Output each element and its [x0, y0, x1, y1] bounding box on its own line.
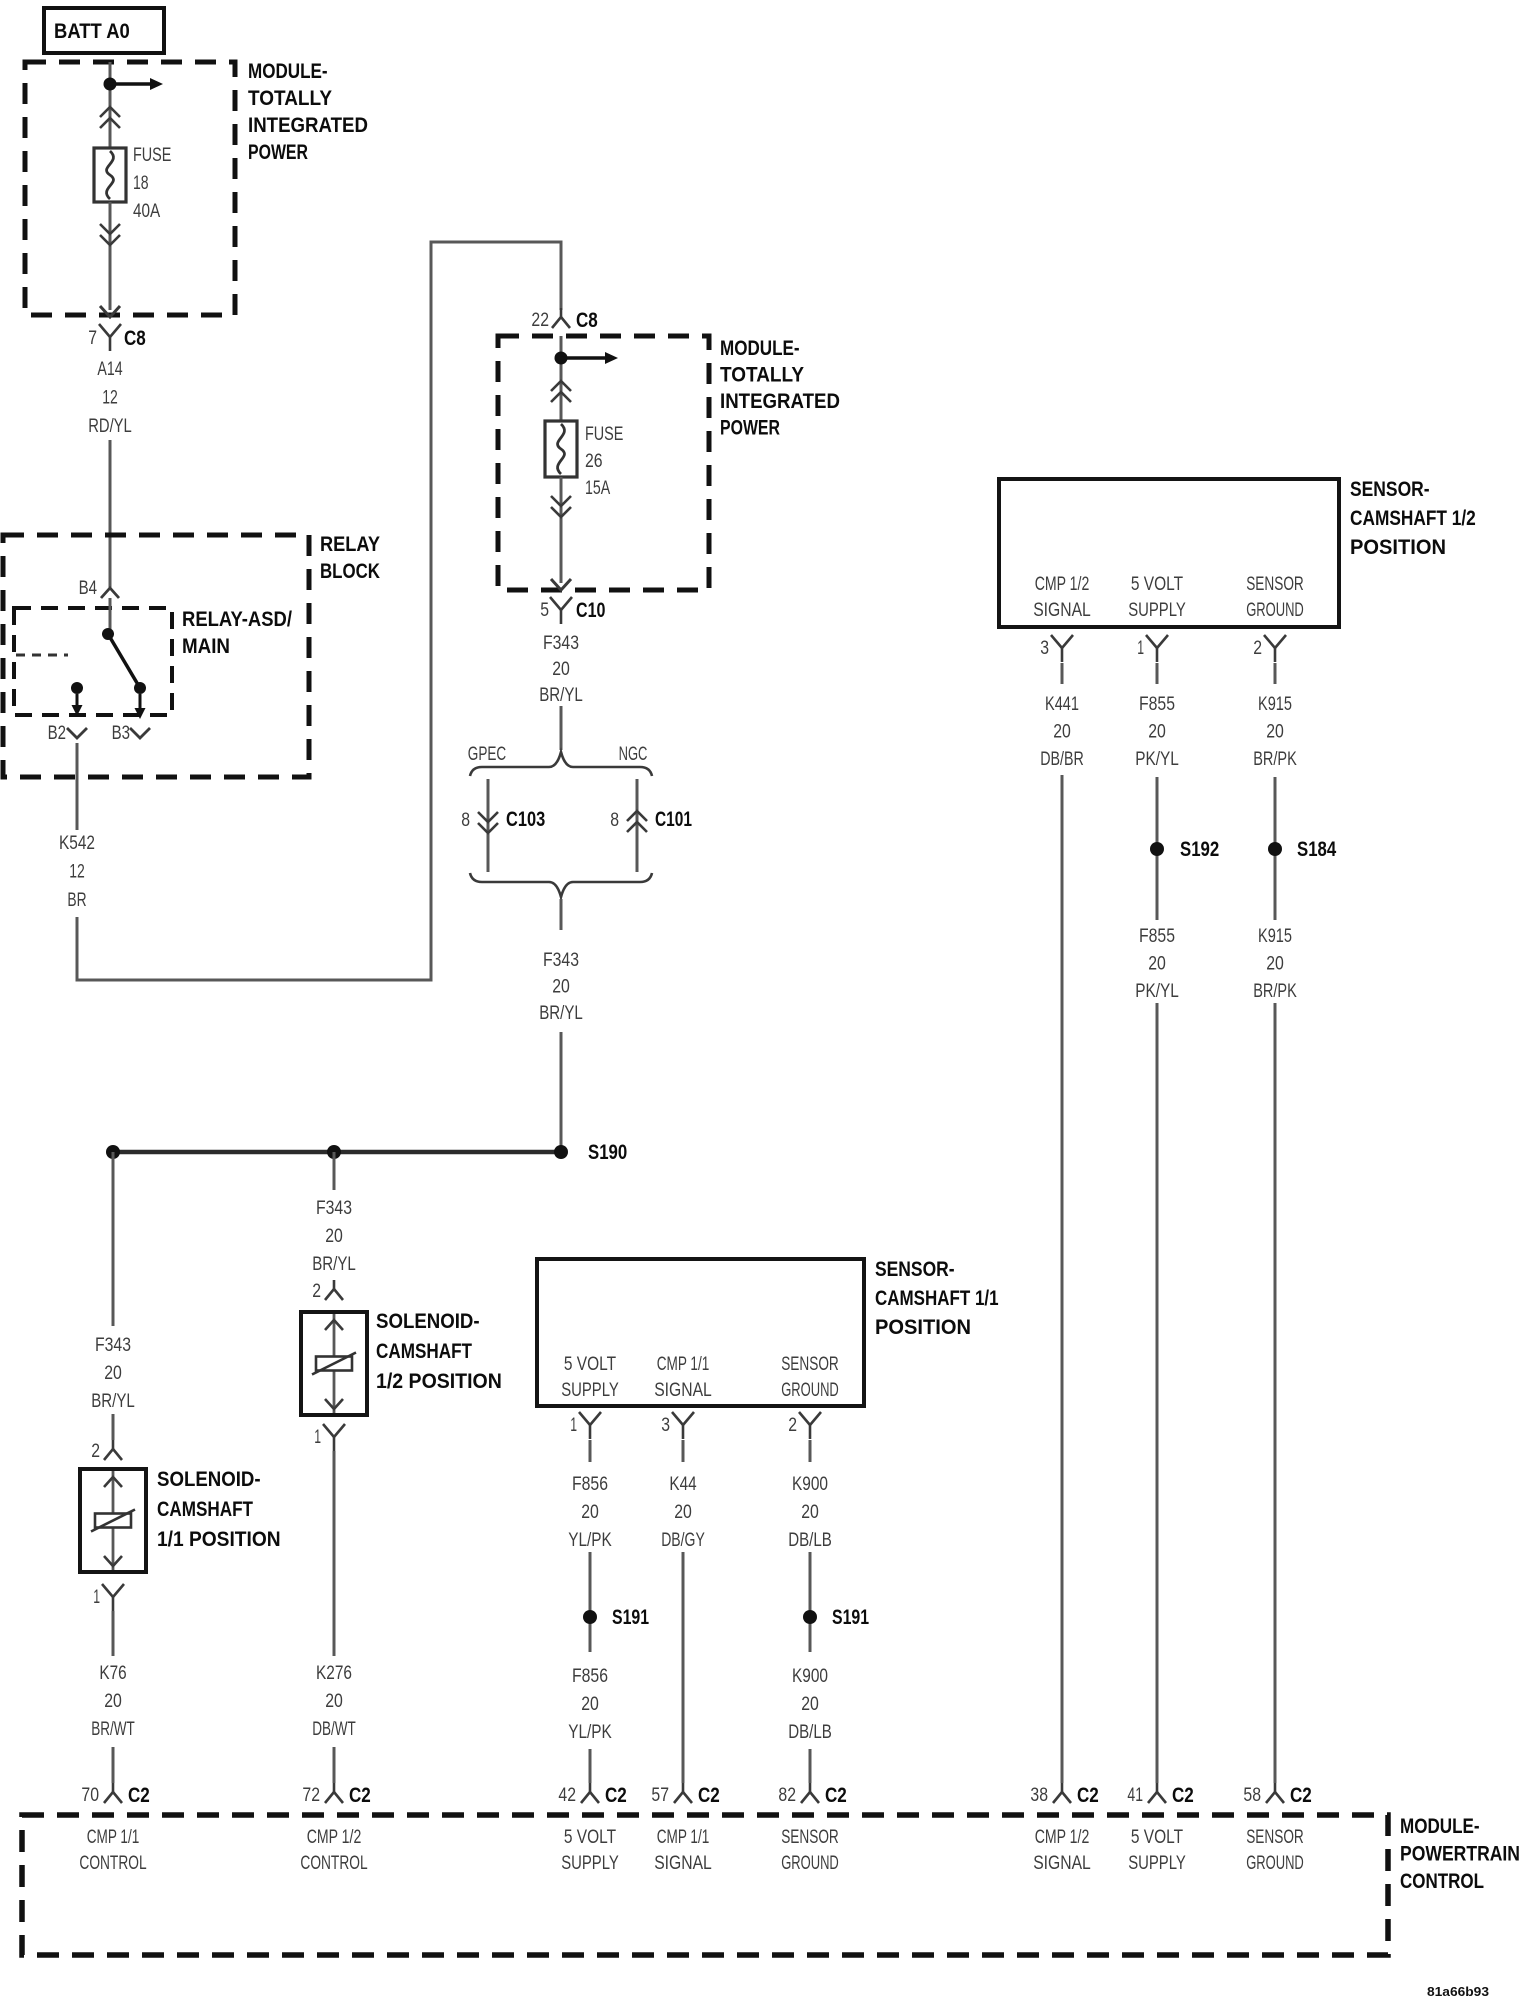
label RELAY BLOCK	[320, 533, 380, 583]
wire A14 to relay block	[109, 440, 112, 588]
svg-text:40A: 40A	[133, 201, 160, 222]
label SENSOR GROUND in box 2	[1246, 574, 1304, 621]
wire F856 labels upper	[568, 1474, 612, 1551]
pin B4 label	[79, 578, 98, 599]
label CMP 1/2 CONTROL	[300, 1827, 367, 1874]
svg-text:41: 41	[1127, 1785, 1143, 1806]
double chevron up 1	[100, 107, 120, 128]
svg-text:RD/YL: RD/YL	[88, 416, 132, 437]
wire into fuse 26	[560, 336, 563, 421]
terminal 1 sol 1-2	[323, 1424, 345, 1451]
pin 1 label sol 1-2	[314, 1427, 321, 1448]
pin 1 label sens 1-1	[570, 1415, 577, 1436]
svg-text:BATT A0: BATT A0	[54, 20, 130, 43]
pin 57 label	[651, 1785, 669, 1806]
svg-text:CAMSHAFT: CAMSHAFT	[157, 1498, 253, 1521]
wire K441 long	[1061, 775, 1064, 1783]
svg-text:42: 42	[558, 1785, 576, 1806]
pin 3 label sens 1-1	[661, 1415, 670, 1436]
svg-text:20: 20	[1148, 954, 1166, 975]
svg-text:SENSOR: SENSOR	[781, 1354, 839, 1375]
svg-text:1: 1	[93, 1587, 100, 1608]
svg-text:3: 3	[1040, 638, 1049, 659]
svg-text:S190: S190	[588, 1141, 627, 1164]
svg-text:C8: C8	[124, 327, 146, 350]
svg-text:F343: F343	[543, 633, 579, 654]
pin 72 label	[302, 1785, 320, 1806]
pin 7 label	[88, 328, 97, 349]
wire F343 labels lower	[539, 950, 583, 1024]
label C2 pin72	[349, 1784, 371, 1807]
svg-text:12: 12	[69, 862, 85, 883]
label S190	[588, 1141, 627, 1164]
svg-text:BR/YL: BR/YL	[91, 1391, 135, 1412]
pin 2 label sens 1-2	[1253, 638, 1262, 659]
pin 22 label	[531, 310, 549, 331]
svg-text:POSITION: POSITION	[875, 1316, 971, 1339]
terminal 3 sens 1-2	[1051, 635, 1073, 662]
wire K44 labels	[661, 1474, 705, 1551]
relay armature	[108, 634, 140, 688]
svg-text:RELAY-ASD/: RELAY-ASD/	[182, 608, 292, 631]
terminal 3 sens 1-1	[672, 1412, 694, 1439]
svg-text:F856: F856	[572, 1666, 608, 1687]
svg-text:GPEC: GPEC	[468, 744, 506, 765]
svg-text:K915: K915	[1258, 694, 1292, 715]
svg-text:20: 20	[552, 977, 570, 998]
wire branch solenoid 1-2 upper	[333, 1152, 336, 1190]
terminal 2 sens 1-2	[1264, 635, 1286, 662]
terminal 41 C2	[1148, 1783, 1166, 1803]
solenoid camshaft 1-2 position	[301, 1312, 367, 1415]
svg-text:K900: K900	[792, 1666, 828, 1687]
wire K900 through S191	[809, 1552, 812, 1652]
wire K76 to PCM	[112, 1747, 115, 1783]
wire F343 labels top	[539, 633, 583, 706]
svg-text:C101: C101	[655, 808, 692, 831]
svg-text:70: 70	[81, 1785, 99, 1806]
svg-text:TOTALLY: TOTALLY	[248, 87, 332, 110]
svg-text:22: 22	[531, 310, 549, 331]
label C10	[576, 599, 605, 622]
label MODULE-TOTALLY INTEGRATED POWER 2	[720, 337, 840, 440]
module RELAY BLOCK dashed box	[3, 535, 309, 777]
svg-text:26: 26	[585, 451, 603, 472]
svg-text:F855: F855	[1139, 926, 1175, 947]
label S184	[1297, 838, 1336, 861]
fuse 18 40A	[94, 148, 126, 202]
terminal 2 sol 1-2	[325, 1280, 343, 1300]
arrow feed to other circuits 2	[561, 352, 618, 364]
terminal 1 sens 1-2	[1146, 635, 1168, 662]
label SENSOR-CAMSHAFT 1/1 POSITION	[875, 1258, 999, 1339]
arrow contact B2 down	[72, 694, 83, 716]
terminal 2 sens 1-1	[799, 1412, 821, 1439]
wire GPEC branch	[487, 779, 490, 872]
svg-text:DB/LB: DB/LB	[788, 1530, 832, 1551]
terminal 2 sol 1-1	[104, 1440, 122, 1460]
svg-text:K915: K915	[1258, 926, 1292, 947]
svg-text:F343: F343	[543, 950, 579, 971]
wire K441 upper seg	[1061, 663, 1064, 684]
label C8 top	[124, 327, 146, 350]
label CMP 1/2 SIGNAL in box 2	[1033, 574, 1091, 621]
pin B3 label	[112, 723, 130, 744]
wire K542 labels	[59, 833, 95, 911]
label C2 pin42	[605, 1784, 627, 1807]
svg-text:1: 1	[1137, 638, 1144, 659]
wire K276	[333, 1451, 336, 1656]
label 5 VOLT SUPPLY pcm b	[1128, 1827, 1186, 1874]
label MODULE-POWERTRAIN CONTROL	[1400, 1815, 1520, 1893]
svg-text:GROUND: GROUND	[781, 1853, 839, 1874]
wire fuse 26 to C10	[560, 477, 563, 583]
wire K276 labels	[312, 1663, 356, 1740]
svg-text:3: 3	[661, 1415, 670, 1436]
svg-text:BLOCK: BLOCK	[320, 560, 380, 583]
svg-text:B4: B4	[79, 578, 98, 599]
svg-text:K44: K44	[669, 1474, 697, 1495]
svg-text:S191: S191	[832, 1606, 869, 1629]
svg-text:C2: C2	[1172, 1784, 1194, 1807]
wire branch solenoid 1-1 upper	[112, 1152, 115, 1326]
svg-text:F343: F343	[95, 1335, 131, 1356]
wire battery feed into fuse 18	[109, 62, 112, 148]
svg-text:20: 20	[1266, 954, 1284, 975]
connector C8 pin 7	[99, 324, 121, 351]
svg-text:SUPPLY: SUPPLY	[561, 1853, 619, 1874]
label SENSOR GROUND in box 1	[781, 1354, 839, 1401]
module POWERTRAIN CONTROL dashed box	[22, 1815, 1388, 1955]
svg-text:B3: B3	[112, 723, 130, 744]
svg-text:FUSE: FUSE	[585, 424, 623, 445]
label drawing number	[1427, 1984, 1489, 1999]
node splice in TIPM 2	[555, 352, 568, 365]
label CMP 1/1 CONTROL	[79, 1827, 146, 1874]
svg-text:TOTALLY: TOTALLY	[720, 364, 804, 387]
node S191 b	[803, 1610, 817, 1624]
svg-text:CAMSHAFT 1/1: CAMSHAFT 1/1	[875, 1287, 999, 1310]
node splice in TIPM 1	[104, 78, 117, 91]
arrow contact B3 down	[135, 694, 146, 719]
terminal B2 chevron	[67, 728, 87, 738]
svg-text:1: 1	[314, 1427, 321, 1448]
label CMP 1/2 SIGNAL pcm	[1033, 1827, 1091, 1874]
wire B4 into relay	[109, 598, 112, 634]
svg-text:2: 2	[91, 1441, 100, 1462]
double chevron down 1	[100, 224, 120, 245]
svg-text:5 VOLT: 5 VOLT	[564, 1827, 617, 1848]
wire F855 labels lower	[1135, 926, 1179, 1002]
arrow feed to other circuits 1	[110, 78, 163, 90]
svg-text:82: 82	[778, 1785, 796, 1806]
svg-text:SUPPLY: SUPPLY	[1128, 1853, 1186, 1874]
svg-text:C2: C2	[825, 1784, 847, 1807]
svg-text:20: 20	[581, 1502, 599, 1523]
svg-text:C103: C103	[506, 808, 545, 831]
pin 1 label sol 1-1	[93, 1587, 100, 1608]
wire F343 labels branch 2	[312, 1198, 356, 1275]
terminal 38 C2	[1053, 1783, 1071, 1803]
relay contact B2	[71, 682, 83, 694]
wire K441 labels	[1040, 694, 1084, 770]
wire F856 through S191	[589, 1552, 592, 1652]
wire F855 labels upper	[1135, 694, 1179, 770]
arrow out of TIPM 1	[100, 306, 120, 317]
label FUSE 26 15A	[585, 424, 623, 499]
module TIPM dashed box 1	[25, 62, 235, 315]
node S190	[554, 1145, 568, 1159]
svg-text:SIGNAL: SIGNAL	[1033, 1853, 1091, 1874]
svg-text:C2: C2	[1290, 1784, 1312, 1807]
wire F856 to PCM	[589, 1749, 592, 1783]
svg-text:POWERTRAIN: POWERTRAIN	[1400, 1843, 1520, 1866]
svg-text:MAIN: MAIN	[182, 635, 230, 658]
node S184	[1268, 842, 1282, 856]
svg-text:B2: B2	[48, 723, 66, 744]
svg-text:C2: C2	[128, 1784, 150, 1807]
svg-text:1: 1	[570, 1415, 577, 1436]
svg-text:5: 5	[540, 600, 549, 621]
terminal 70 C2	[104, 1783, 122, 1803]
svg-text:POWER: POWER	[248, 141, 308, 164]
wire K76 labels	[91, 1663, 135, 1740]
wire F856 labels lower	[568, 1666, 612, 1743]
sensor camshaft 1-1 position box	[537, 1259, 864, 1406]
fuse 26 15A	[545, 421, 577, 477]
label S191 b	[832, 1606, 869, 1629]
label C2 pin58	[1290, 1784, 1312, 1807]
label RELAY-ASD MAIN	[182, 608, 292, 658]
terminal 22 connector	[552, 308, 570, 328]
svg-text:72: 72	[302, 1785, 320, 1806]
connector C101 chevrons	[627, 811, 647, 832]
svg-text:20: 20	[801, 1694, 819, 1715]
svg-text:CMP 1/2: CMP 1/2	[1035, 1827, 1090, 1848]
svg-text:SIGNAL: SIGNAL	[654, 1380, 712, 1401]
svg-text:SUPPLY: SUPPLY	[561, 1380, 619, 1401]
svg-text:20: 20	[581, 1694, 599, 1715]
wire K276 to PCM	[333, 1747, 336, 1783]
sensor camshaft 1-2 position box	[999, 479, 1339, 627]
svg-text:K900: K900	[792, 1474, 828, 1495]
solenoid camshaft 1-1 position	[80, 1469, 146, 1572]
pin 5 label	[540, 600, 549, 621]
svg-text:MODULE-: MODULE-	[720, 337, 800, 360]
svg-text:K542: K542	[59, 833, 95, 854]
svg-text:S191: S191	[612, 1606, 649, 1629]
svg-text:1/1 POSITION: 1/1 POSITION	[157, 1528, 281, 1551]
label SOLENOID-CAMSHAFT 1/2 POSITION	[376, 1310, 502, 1393]
terminal 42 C2	[581, 1783, 599, 1803]
svg-text:CONTROL: CONTROL	[79, 1853, 146, 1874]
svg-text:S184: S184	[1297, 838, 1336, 861]
svg-text:CMP 1/1: CMP 1/1	[657, 1354, 710, 1375]
label S191 a	[612, 1606, 649, 1629]
svg-text:38: 38	[1030, 1785, 1048, 1806]
wire F343 labels branch 1	[91, 1335, 135, 1412]
svg-text:SUPPLY: SUPPLY	[1128, 600, 1186, 621]
svg-text:GROUND: GROUND	[781, 1380, 839, 1401]
label SOLENOID-CAMSHAFT 1/1 POSITION	[157, 1468, 281, 1551]
relay coil dashed link	[16, 654, 68, 657]
wire K915 labels lower	[1253, 926, 1297, 1002]
pin B2 label	[48, 723, 66, 744]
svg-text:GROUND: GROUND	[1246, 1853, 1304, 1874]
svg-text:1/2 POSITION: 1/2 POSITION	[376, 1370, 502, 1393]
wire K542 upper	[76, 743, 79, 830]
wire F856 upper seg	[589, 1440, 592, 1462]
double chevron down 2	[551, 496, 571, 517]
label SENSOR GROUND pcm b	[1246, 1827, 1304, 1874]
svg-text:CONTROL: CONTROL	[1400, 1870, 1484, 1893]
svg-text:SOLENOID-: SOLENOID-	[157, 1468, 261, 1491]
wire K900 labels upper	[788, 1474, 832, 1551]
pin 41 label	[1127, 1785, 1143, 1806]
brace split top	[470, 752, 652, 776]
brace merge bottom	[470, 873, 652, 897]
wire K915 labels upper	[1253, 694, 1297, 770]
svg-text:FUSE: FUSE	[133, 145, 171, 166]
svg-text:DB/GY: DB/GY	[661, 1530, 705, 1551]
label MODULE-TOTALLY INTEGRATED POWER 1	[248, 60, 368, 164]
svg-text:20: 20	[325, 1691, 343, 1712]
svg-text:SENSOR: SENSOR	[1246, 574, 1304, 595]
svg-text:PK/YL: PK/YL	[1135, 749, 1179, 770]
pin 2 label sol 1-2	[312, 1281, 321, 1302]
svg-text:SENSOR-: SENSOR-	[875, 1258, 955, 1281]
svg-text:BR/WT: BR/WT	[91, 1719, 135, 1740]
svg-text:PK/YL: PK/YL	[1135, 981, 1179, 1002]
svg-text:GROUND: GROUND	[1246, 600, 1304, 621]
svg-text:20: 20	[104, 1691, 122, 1712]
label 5 VOLT SUPPLY in box 1	[561, 1354, 619, 1401]
label FUSE 18 40A	[133, 145, 171, 222]
wire F855 long	[1156, 1003, 1159, 1783]
label 5 VOLT SUPPLY pcm a	[561, 1827, 619, 1874]
terminal 82 C2	[801, 1783, 819, 1803]
wire fuse 18 to connector C8	[109, 202, 112, 310]
svg-text:BR/PK: BR/PK	[1253, 749, 1297, 770]
svg-text:C2: C2	[1077, 1784, 1099, 1807]
pin 58 label	[1243, 1785, 1261, 1806]
svg-text:BR: BR	[67, 890, 86, 911]
double chevron up 2	[551, 381, 571, 402]
wire splice trunk S190	[113, 1150, 561, 1155]
svg-text:CMP 1/2: CMP 1/2	[307, 1827, 362, 1848]
label C8 mid	[576, 309, 598, 332]
label CMP 1/1 SIGNAL in box 1	[654, 1354, 712, 1401]
label SENSOR-CAMSHAFT 1/2 POSITION	[1350, 478, 1476, 559]
svg-text:15A: 15A	[585, 478, 610, 499]
wire F855 upper seg	[1156, 663, 1159, 684]
wire F855 through S192	[1156, 777, 1159, 920]
node splice left	[106, 1145, 120, 1159]
svg-text:INTEGRATED: INTEGRATED	[720, 390, 840, 413]
wire K900 labels lower	[788, 1666, 832, 1743]
svg-text:SOLENOID-: SOLENOID-	[376, 1310, 480, 1333]
terminal B4 chevron	[101, 588, 119, 598]
wire K915 through S184	[1274, 777, 1277, 920]
svg-text:BR/YL: BR/YL	[312, 1254, 356, 1275]
svg-text:CMP 1/1: CMP 1/1	[87, 1827, 140, 1848]
connector C103 chevrons	[478, 812, 498, 833]
svg-text:DB/LB: DB/LB	[788, 1722, 832, 1743]
svg-text:2: 2	[312, 1281, 321, 1302]
svg-text:MODULE-: MODULE-	[248, 60, 328, 83]
svg-text:CAMSHAFT: CAMSHAFT	[376, 1340, 472, 1363]
wire F343 to splice S190	[560, 1032, 563, 1152]
svg-text:DB/WT: DB/WT	[312, 1719, 356, 1740]
node splice mid	[327, 1145, 341, 1159]
svg-text:58: 58	[1243, 1785, 1261, 1806]
pin 1 label sens 1-2	[1137, 638, 1144, 659]
svg-text:5 VOLT: 5 VOLT	[1131, 1827, 1184, 1848]
svg-text:CAMSHAFT 1/2: CAMSHAFT 1/2	[1350, 507, 1476, 530]
pin 38 label	[1030, 1785, 1048, 1806]
svg-text:POSITION: POSITION	[1350, 536, 1446, 559]
wire K900 to PCM	[809, 1749, 812, 1783]
terminal 1 sens 1-1	[579, 1412, 601, 1439]
svg-text:BR/PK: BR/PK	[1253, 981, 1297, 1002]
terminal 58 C2	[1266, 1783, 1284, 1803]
svg-text:DB/BR: DB/BR	[1040, 749, 1084, 770]
wire K915 upper seg	[1274, 663, 1277, 684]
svg-text:YL/PK: YL/PK	[568, 1722, 612, 1743]
svg-text:20: 20	[104, 1363, 122, 1384]
svg-text:5 VOLT: 5 VOLT	[564, 1354, 617, 1375]
wire K76 upper	[112, 1611, 115, 1656]
wire NGC branch	[636, 779, 639, 872]
relay contact B3	[134, 682, 146, 694]
label C2 pin38	[1077, 1784, 1099, 1807]
svg-text:F856: F856	[572, 1474, 608, 1495]
svg-text:7: 7	[88, 328, 97, 349]
wire K542 routing to TIPM 2	[77, 242, 561, 980]
svg-text:C8: C8	[576, 309, 598, 332]
svg-text:12: 12	[102, 388, 118, 409]
svg-text:YL/PK: YL/PK	[568, 1530, 612, 1551]
svg-text:K276: K276	[316, 1663, 352, 1684]
svg-text:81a66b93: 81a66b93	[1427, 1984, 1489, 1999]
svg-text:F343: F343	[316, 1198, 352, 1219]
label S192	[1180, 838, 1219, 861]
terminal 72 C2	[325, 1783, 343, 1803]
svg-text:MODULE-: MODULE-	[1400, 1815, 1480, 1838]
wire K915 long	[1274, 1003, 1277, 1783]
arrow out of TIPM 2	[551, 579, 571, 590]
svg-text:NGC: NGC	[619, 744, 648, 765]
relay common contact	[102, 628, 114, 640]
svg-text:20: 20	[325, 1226, 343, 1247]
svg-text:F855: F855	[1139, 694, 1175, 715]
svg-text:SENSOR-: SENSOR-	[1350, 478, 1430, 501]
svg-text:5 VOLT: 5 VOLT	[1131, 574, 1184, 595]
terminal 1 sol 1-1	[102, 1584, 124, 1611]
module TIPM dashed box 2	[498, 336, 709, 590]
wire A14 labels	[88, 359, 132, 437]
svg-text:SIGNAL: SIGNAL	[654, 1853, 712, 1874]
svg-text:57: 57	[651, 1785, 669, 1806]
terminal B3 chevron	[130, 728, 150, 738]
node BATT A0 box	[44, 8, 164, 53]
label C2 pin82	[825, 1784, 847, 1807]
pin 8 label C103	[461, 810, 470, 831]
pin 42 label	[558, 1785, 576, 1806]
label CMP 1/1 SIGNAL pcm	[654, 1827, 712, 1874]
pin 70 label	[81, 1785, 99, 1806]
pin 3 label sens 1-2	[1040, 638, 1049, 659]
